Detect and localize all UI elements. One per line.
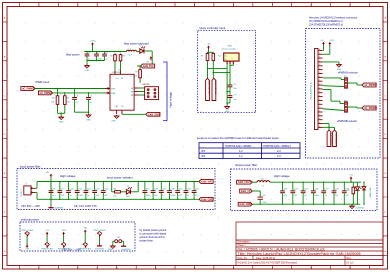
- wire: [232, 64, 234, 65]
- svg-text:2-3: 2-3: [277, 150, 281, 153]
- capacitor C12: [85, 182, 87, 191]
- resistor R10: [212, 52, 214, 53]
- svg-text:Date: 2016-09-11: Date: 2016-09-11: [256, 257, 276, 260]
- resistor R8: [113, 191, 114, 193]
- wire: [323, 85, 345, 88]
- svg-text:High voltage: High voltage: [274, 174, 290, 178]
- resistor R2: [120, 54, 122, 55]
- svg-text:rotary_encoder: rotary_encoder: [222, 48, 236, 51]
- wire: [139, 87, 145, 89]
- svg-text:external power: external power: [21, 218, 39, 222]
- capacitor C22: [259, 195, 261, 198]
- svg-text:VIN: VIN: [46, 172, 50, 174]
- pin: [318, 57, 323, 59]
- inductor L3: [252, 181, 257, 183]
- wire: [348, 106, 357, 108]
- capacitor C26: [312, 182, 314, 191]
- svg-text:GaN_SMBCLK: GaN_SMBCLK: [329, 132, 331, 146]
- wire: [111, 182, 113, 192]
- wire: [207, 62, 209, 79]
- global label GaN_VIN: [199, 180, 213, 184]
- svg-text:J5A (LAUNCHXL2): J5A (LAUNCHXL2): [310, 82, 313, 100]
- capacitor C9: [59, 182, 61, 191]
- pin: [318, 96, 323, 98]
- svg-text:GaN_5V0: GaN_5V0: [143, 65, 154, 68]
- pin: [229, 61, 231, 64]
- svg-text:Hercules LAUNCHXL2 breakout co: Hercules LAUNCHXL2 breakout connector: [309, 16, 357, 20]
- LED D1: [140, 49, 144, 53]
- pin: [318, 49, 323, 51]
- pin: [134, 91, 138, 93]
- svg-text:input power filter: input power filter: [20, 164, 41, 168]
- svg-text:uC_PWM2: uC_PWM2: [40, 92, 53, 95]
- diode D4 TVS: [363, 182, 365, 186]
- capacitor C18: [169, 182, 171, 191]
- pin: [318, 103, 323, 105]
- svg-text:LMPWR: LMPWR: [142, 84, 150, 86]
- capacitor C28: [333, 182, 335, 191]
- svg-text:R2: R2: [123, 56, 125, 58]
- svg-text:470: 470: [113, 196, 116, 198]
- svg-text:10n: 10n: [233, 88, 236, 90]
- wire: [323, 53, 330, 55]
- svg-text:GaNGND: GaNGND: [95, 249, 105, 251]
- ground: [88, 112, 90, 114]
- svg-text:GaNGND: GaNGND: [356, 207, 365, 209]
- svg-text:GND: GND: [111, 121, 116, 123]
- global label ROT_B: [212, 78, 216, 100]
- wire: [323, 109, 345, 111]
- capacitor C11: [76, 182, 78, 191]
- pin: [318, 119, 323, 121]
- wire: [35, 187, 37, 189]
- power +5V: [350, 179, 352, 181]
- ground: [338, 64, 340, 65]
- pin: [232, 61, 234, 64]
- pin: [318, 88, 323, 90]
- svg-text:CONN_2: CONN_2: [21, 189, 23, 196]
- wire: [208, 49, 210, 52]
- svg-text:R10: R10: [218, 56, 221, 58]
- svg-text:GND: GND: [59, 122, 64, 124]
- LED D2: [126, 190, 130, 194]
- svg-text:GaN_VIN: GaN_VIN: [201, 181, 212, 184]
- svg-text:J5 (TMS570LS12x/RM46x) or: J5 (TMS570LS12x/RM46x) or: [309, 19, 343, 23]
- svg-text:High voltage: High voltage: [169, 92, 173, 108]
- connector J2: [145, 87, 159, 100]
- pin: [318, 65, 323, 67]
- global label uC_PWM1: [21, 87, 35, 91]
- wire: [145, 50, 152, 52]
- svg-text:R5: R5: [347, 190, 349, 192]
- svg-text:SMBJ70A: SMBJ70A: [369, 187, 372, 197]
- svg-text:VIN: VIN: [83, 228, 87, 230]
- svg-text:GND: GND: [86, 119, 91, 121]
- svg-text:uC_PWM1: uC_PWM1: [364, 84, 377, 87]
- svg-text:C22: C22: [262, 195, 265, 197]
- svg-text:GaN_GND: GaN_GND: [201, 198, 213, 201]
- svg-text:ePWM1A selector: ePWM1A selector: [338, 72, 358, 75]
- capacitor C29: [343, 182, 345, 191]
- svg-text:GaN_ROT_B: GaN_ROT_B: [214, 81, 216, 95]
- svg-text:VIN: 10V — 80V: VIN: 10V — 80V: [62, 247, 81, 251]
- power +5V: [323, 44, 325, 46]
- wire bus bottom: [37, 198, 199, 200]
- svg-text:PWM: PWM: [111, 88, 116, 90]
- pin: [318, 80, 323, 82]
- pin: [31, 187, 35, 189]
- resistor R9: [207, 52, 209, 53]
- svg-text:R7: R7: [67, 98, 69, 100]
- pin: [134, 87, 138, 89]
- svg-text:TMS570LS12x / RM46x: TMS570LS12x / RM46x: [225, 145, 252, 148]
- resistor R7: [64, 93, 66, 95]
- brace high voltage: [163, 62, 167, 121]
- pin: [318, 61, 323, 63]
- box: launchpad connector: [306, 29, 381, 159]
- pin: [226, 61, 228, 64]
- svg-text:VIN: 50V — 80V: VIN: 50V — 80V: [21, 204, 40, 208]
- pin: [318, 107, 323, 109]
- svg-text:+5V: +5V: [45, 230, 49, 232]
- wire: [114, 62, 116, 70]
- pin: [318, 126, 323, 128]
- global label ROT_A: [206, 78, 210, 100]
- svg-text:isolate them.: isolate them.: [140, 240, 154, 243]
- wire: [323, 89, 332, 91]
- svg-text:PWR_FLAG: PWR_FLAG: [41, 248, 53, 251]
- capacitor C19: [177, 182, 179, 191]
- power +5V: [208, 48, 210, 50]
- power +3V3: [92, 44, 94, 46]
- svg-text:1-2: 1-2: [239, 155, 243, 158]
- svg-text:GND: GND: [225, 111, 230, 113]
- capacitor C24: [292, 182, 294, 191]
- svg-text:input power indicator: input power indicator: [107, 175, 133, 179]
- capacitor C3: [104, 52, 106, 55]
- svg-text:rotary controller input: rotary controller input: [199, 26, 225, 30]
- svg-text:GaN_GND: GaN_GND: [148, 113, 160, 116]
- pin: [106, 92, 111, 94]
- svg-text:D2: D2: [127, 186, 129, 188]
- svg-text:JP1: JP1: [201, 150, 206, 153]
- capacitor C8: [50, 182, 52, 191]
- capacitor C17: [160, 182, 162, 191]
- wire bus top: [37, 181, 199, 183]
- pin: [134, 94, 138, 96]
- svg-text:D3: D3: [359, 186, 361, 188]
- svg-text:R8: R8: [114, 188, 116, 190]
- wire bus bottom: [252, 203, 360, 205]
- global label uC_PWM2: [362, 106, 376, 110]
- svg-text:output power filter: output power filter: [235, 163, 257, 167]
- svg-text:GaN_VS: GaN_VS: [241, 190, 251, 193]
- svg-text:GND: GND: [85, 70, 90, 72]
- pin: [318, 99, 323, 101]
- resistor R3: [139, 66, 141, 69]
- svg-text:Max power indicator: Max power indicator: [124, 42, 149, 46]
- svg-text:uC_PWM2: uC_PWM2: [364, 107, 377, 110]
- capacitor C4: [74, 89, 76, 98]
- pin: [318, 115, 323, 117]
- wire: [226, 68, 228, 105]
- ground: [112, 245, 114, 246]
- capacitor C13: [94, 182, 96, 191]
- wire: [35, 88, 110, 90]
- pin: [318, 73, 323, 75]
- wire: [348, 82, 357, 84]
- capacitor C15: [144, 182, 146, 191]
- svg-text:GaNPWR: GaNPWR: [54, 208, 63, 210]
- svg-text:Title: Hercules LaunchPad LAUN: Title: Hercules LaunchPad LAUNCHXL2 Boos…: [238, 252, 361, 256]
- svg-text:2-3: 2-3: [277, 155, 281, 158]
- svg-text:R3: R3: [135, 72, 137, 74]
- wire: [57, 106, 59, 114]
- pin: [121, 110, 123, 114]
- wire: [137, 51, 141, 53]
- pin: [114, 70, 116, 74]
- svg-text:LED: LED: [126, 196, 130, 198]
- svg-text:GaN_GND: GaN_GND: [239, 203, 251, 206]
- svg-text:R1: R1: [110, 56, 112, 58]
- svg-text:Max power: Max power: [66, 53, 80, 57]
- pin: [31, 192, 35, 194]
- svg-text:uC_PWM1: uC_PWM1: [22, 88, 35, 91]
- svg-text:ePWM1B selector: ePWM1B selector: [337, 120, 357, 123]
- svg-text:GaN_VOUT: GaN_VOUT: [238, 181, 252, 184]
- capacitor C25: [302, 182, 304, 191]
- wire: [53, 92, 110, 94]
- global label GaN_SMBDAT: [333, 130, 337, 147]
- wire: [323, 123, 330, 125]
- svg-text:R9: R9: [201, 56, 203, 58]
- capacitor C10: [68, 182, 70, 191]
- capacitor C1: [86, 52, 88, 55]
- ground GaNGND: [123, 245, 125, 246]
- svg-text:+3V3: +3V3: [329, 40, 333, 42]
- wire: [323, 77, 342, 79]
- pin: [318, 123, 323, 125]
- ground: [86, 65, 88, 66]
- svg-text:GaN_ROT_A: GaN_ROT_A: [207, 81, 210, 95]
- svg-text:VIN: VIN: [25, 249, 29, 251]
- svg-text:G: G: [384, 251, 386, 253]
- pin: [318, 111, 323, 113]
- global label GaN_GND: [199, 197, 213, 201]
- power VIN flag: [84, 232, 86, 234]
- capacitor C2: [96, 52, 98, 55]
- power VIN: [50, 176, 52, 178]
- svg-text:PWM input: PWM input: [36, 80, 50, 84]
- svg-text:GND: GND: [108, 249, 113, 251]
- power +3V3 flag: [63, 234, 65, 236]
- global label GaN_5V0: [141, 64, 155, 68]
- wire: [84, 51, 127, 53]
- capacitor C27: [323, 182, 325, 191]
- pin: [116, 110, 118, 114]
- wire: [350, 180, 352, 182]
- power GaNPWR: [50, 206, 52, 207]
- pin: [318, 53, 323, 55]
- inductor L1: [127, 50, 137, 51]
- svg-text:10k: 10k: [51, 102, 54, 104]
- svg-text:Id: 1/1: Id: 1/1: [347, 261, 355, 265]
- svg-text:10k: 10k: [134, 76, 137, 78]
- svg-text:R6: R6: [52, 98, 54, 100]
- power +5V flag: [46, 234, 48, 236]
- resistor R5: [352, 182, 354, 186]
- svg-text:JP2: JP2: [201, 155, 206, 158]
- svg-text:TMS570LC43x / RM57Lx: TMS570LC43x / RM57Lx: [263, 145, 292, 148]
- ground: [60, 116, 62, 117]
- pin: [318, 92, 323, 94]
- capacitor C23: [282, 182, 284, 191]
- global label uC_PWM2: [38, 91, 52, 95]
- svg-text:Rev:: Rev:: [347, 257, 352, 260]
- global label GaN_SMBCLK: [327, 130, 331, 147]
- ground: [226, 105, 228, 106]
- power +5V: [150, 58, 152, 60]
- ground: [351, 203, 353, 206]
- svg-text:KiCad E.D.A. kicad (2014-07-0: KiCad E.D.A. kicad (2014-07-09 BZR 5024)…: [238, 261, 298, 265]
- svg-text:+3V3: +3V3: [61, 230, 67, 232]
- svg-text:1-2: 1-2: [239, 150, 243, 153]
- svg-text:PWR_FLAG: PWR_FLAG: [79, 248, 91, 251]
- svg-text:G: G: [4, 251, 6, 253]
- wire: [252, 190, 260, 192]
- svg-text:J5A (TMS570LC43x/RM57Lx): J5A (TMS570LC43x/RM57Lx): [309, 22, 343, 26]
- global label GaN_GND: [238, 202, 252, 206]
- pin: [318, 69, 323, 71]
- svg-text:File: LM25066_HDK(5.5)_LAUNCHX: File: LM25066_HDK(5.5)_LAUNCHXL2_BOOSTER…: [238, 247, 326, 251]
- resistor R6: [57, 89, 59, 95]
- global label GaN_VOUT: [237, 180, 253, 184]
- pin: [318, 84, 323, 86]
- wire: [86, 58, 88, 60]
- global label uC_PWM1: [362, 83, 376, 87]
- capacitor C20: [185, 182, 187, 191]
- title block: [236, 222, 383, 266]
- wire: [323, 126, 335, 128]
- wire: [323, 61, 340, 63]
- svg-text:10n: 10n: [233, 99, 236, 101]
- svg-text:GaNGND: GaNGND: [121, 249, 130, 251]
- svg-text:High voltage: High voltage: [60, 174, 76, 178]
- capacitor C14: [102, 182, 104, 191]
- wire: [122, 191, 127, 193]
- LED D3: [356, 182, 358, 186]
- pin: [106, 88, 111, 90]
- ground: [116, 115, 118, 116]
- wire: [122, 113, 146, 115]
- capacitor C7: [229, 92, 231, 96]
- svg-text:PWM: PWM: [111, 93, 116, 95]
- global label GaN_GND: [146, 112, 160, 116]
- svg-text:GaN_SMBDAT: GaN_SMBDAT: [334, 132, 337, 146]
- svg-text:jumpers to select the ePWM1 li: jumpers to select the ePWM1 lines for di…: [196, 136, 279, 140]
- wire: [137, 65, 141, 67]
- svg-text:Size: A4: Size: A4: [238, 257, 248, 260]
- wire: [132, 191, 139, 193]
- svg-text:10k: 10k: [67, 102, 70, 104]
- wire: [75, 111, 89, 113]
- capacitor C16: [152, 182, 154, 191]
- wire: [50, 178, 52, 207]
- wire: [227, 91, 230, 93]
- wire: [270, 181, 361, 183]
- pin: [318, 76, 323, 78]
- capacitor C5: [88, 93, 90, 98]
- pin: [120, 70, 122, 74]
- resistor R1: [114, 54, 116, 55]
- svg-text:C8, C14: 100V X7S: C8, C14: 100V X7S: [74, 204, 97, 208]
- global label GaN_VAUX: [240, 189, 253, 193]
- capacitor C21: [193, 182, 195, 191]
- wire: [323, 49, 324, 51]
- capacitor C6: [229, 72, 231, 84]
- power +3V3: [329, 44, 331, 46]
